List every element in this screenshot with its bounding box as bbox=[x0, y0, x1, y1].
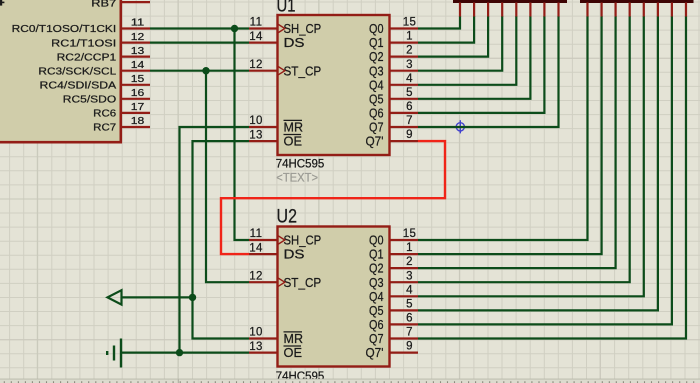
svg-text:Q5: Q5 bbox=[369, 303, 384, 318]
pin RC5/SDO (pin 16) of microcontroller bbox=[122, 98, 150, 100]
svg-text:Q7: Q7 bbox=[369, 120, 384, 135]
svg-text:Q0: Q0 bbox=[369, 233, 384, 248]
svg-text:5: 5 bbox=[406, 87, 413, 99]
bar1 pin stub at x=474 bbox=[473, 3, 475, 17]
pin Q6 (6) of U2 bbox=[390, 323, 419, 325]
svg-text:74HC595: 74HC595 bbox=[276, 158, 325, 170]
wire RC0 to U1 SH_CP bbox=[150, 27, 249, 29]
pin Q2 (2) of U1 bbox=[390, 55, 419, 57]
op: U2 74HC595 body bbox=[278, 227, 390, 367]
arrow head (left pointing) bbox=[108, 290, 122, 304]
svg-text:Q3: Q3 bbox=[369, 63, 384, 78]
wire U1 Q4 to bar1 pin 5 bbox=[418, 16, 516, 85]
wire U1 Q3 to bar1 pin 4 bbox=[418, 16, 502, 71]
svg-text:RC1/T1OSI: RC1/T1OSI bbox=[51, 37, 116, 49]
wire U2 Q3 to bar2 pin 4 bbox=[418, 16, 630, 282]
red wire U1 Q7' to U2 DS bbox=[221, 141, 445, 254]
svg-text:RC6: RC6 bbox=[93, 108, 116, 120]
bar1 pin stub at x=502 bbox=[501, 3, 503, 17]
svg-text:RC0/T1OSO/T1CKI: RC0/T1OSO/T1CKI bbox=[12, 23, 116, 35]
svg-text:ST_CP: ST_CP bbox=[284, 63, 322, 78]
svg-text:15: 15 bbox=[403, 17, 417, 29]
pin Q3 (3) of U2 bbox=[390, 281, 419, 283]
wire U1 Q7 to bar1 pin 8 bbox=[418, 16, 559, 127]
svg-text:Q7: Q7 bbox=[369, 331, 384, 346]
svg-text:OE: OE bbox=[284, 134, 303, 149]
svg-text:Q4: Q4 bbox=[369, 77, 384, 92]
bar1 pin stub at x=460 bbox=[459, 3, 461, 17]
svg-text:1: 1 bbox=[406, 242, 413, 254]
svg-text:7: 7 bbox=[406, 115, 413, 127]
svg-text:U1: U1 bbox=[277, 0, 296, 16]
wire U1 Q6 to bar1 pin 7 bbox=[418, 16, 544, 113]
bar1 pin stub at x=488 bbox=[487, 3, 489, 17]
pin DS (14) of U2 bbox=[249, 253, 278, 255]
pin Q0 (15) of U1 bbox=[390, 27, 419, 29]
svg-text:4: 4 bbox=[406, 284, 413, 296]
pin Q7' (9) of U2 bbox=[390, 352, 419, 354]
svg-text:RC4/SDI/SDA: RC4/SDI/SDA bbox=[40, 80, 117, 92]
wire U1 Q1 to bar1 pin 2 bbox=[418, 16, 474, 43]
top component bar 2 (cut off above) bbox=[580, 0, 694, 3]
junction dot RC0/SH_CP bbox=[231, 25, 238, 32]
wire U2 Q2 to bar2 pin 3 bbox=[418, 16, 616, 268]
svg-text:RC3/SCK/SCL: RC3/SCK/SCL bbox=[38, 65, 116, 77]
bar2 pin stub at x=672 bbox=[671, 3, 673, 17]
svg-text:18: 18 bbox=[131, 116, 145, 127]
pin RB7 of microcontroller, stub bbox=[122, 1, 150, 3]
wire SH_CP net down to U2 SH_CP bbox=[235, 29, 250, 241]
pin MR (10) of U1 bbox=[249, 126, 278, 128]
junction dot RC3/ST_CP bbox=[202, 67, 209, 74]
pin Q4 (4) of U1 bbox=[390, 84, 419, 86]
pin RC6 (pin 17) of microcontroller bbox=[122, 112, 150, 114]
wire U1 Q0 to bar1 pin 1 bbox=[418, 16, 460, 29]
svg-text:5: 5 bbox=[406, 299, 413, 311]
bar1 pin stub at x=516 bbox=[515, 3, 517, 17]
svg-text:6: 6 bbox=[406, 313, 413, 325]
microcontroller chip body (PIC, partially visible) bbox=[0, 0, 121, 142]
bar2 pin stub at x=630 bbox=[629, 3, 631, 17]
pin Q3 (3) of U1 bbox=[390, 70, 419, 72]
wire U2 Q7 to bar2 pin 8 bbox=[418, 16, 686, 339]
svg-text:Q1: Q1 bbox=[369, 247, 384, 262]
pin RC3/SCK/SCL (pin 14) of microcontroller bbox=[122, 70, 150, 72]
svg-text:Q7': Q7' bbox=[366, 134, 384, 149]
junction dot arrow wire / OE net bbox=[189, 294, 196, 301]
bottom window edge strip bbox=[0, 378, 700, 381]
svg-text:MR: MR bbox=[284, 120, 304, 135]
pin Q1 (1) of U1 bbox=[390, 41, 419, 43]
svg-text:1: 1 bbox=[406, 31, 413, 43]
pin RC7 (pin 18) of microcontroller bbox=[122, 126, 150, 128]
pin RC2/CCP1 (pin 13) of microcontroller bbox=[122, 55, 150, 57]
svg-text:11: 11 bbox=[131, 18, 145, 29]
bar1 pin stub at x=530 bbox=[529, 3, 531, 17]
wire U1 Q5 to bar1 pin 6 bbox=[418, 16, 530, 99]
pin RC1/T1OSI (pin 12) of microcontroller bbox=[122, 41, 150, 43]
pin Q5 (5) of U2 bbox=[390, 309, 419, 311]
svg-text:RC7: RC7 bbox=[93, 122, 116, 134]
pin Q6 (6) of U1 bbox=[390, 112, 419, 114]
svg-text:Q4: Q4 bbox=[369, 289, 384, 304]
svg-text:13: 13 bbox=[249, 129, 263, 141]
svg-text:13: 13 bbox=[249, 341, 263, 353]
svg-text:Q0: Q0 bbox=[369, 21, 384, 36]
svg-text:10: 10 bbox=[249, 115, 263, 127]
wire RC1 to U1 DS bbox=[150, 41, 249, 43]
pin Q7 (7) of U2 bbox=[390, 337, 419, 339]
svg-text:Q7': Q7' bbox=[366, 345, 384, 360]
svg-text:U2: U2 bbox=[277, 206, 298, 227]
junction dot ground rail bbox=[176, 349, 183, 356]
svg-text:7: 7 bbox=[406, 327, 413, 339]
svg-text:14: 14 bbox=[249, 242, 263, 254]
pin Q7 (7) of U1 bbox=[390, 126, 419, 128]
svg-text:12: 12 bbox=[249, 59, 263, 71]
stray text fragment top-left corner bbox=[0, 0, 4, 6]
svg-text:RC2/CCP1: RC2/CCP1 bbox=[57, 51, 117, 63]
pin Q5 (5) of U1 bbox=[390, 98, 419, 100]
svg-text:Q5: Q5 bbox=[369, 91, 384, 106]
pin SH_CP (11) of U2 bbox=[249, 239, 278, 241]
top component bar 1 (cut off above) bbox=[453, 0, 567, 3]
wire U2 Q0 to bar2 pin 1 bbox=[418, 16, 588, 240]
wire U2 Q5 to bar2 pin 6 bbox=[418, 16, 658, 310]
wire U2 Q1 to bar2 pin 2 bbox=[418, 16, 602, 254]
bar2 pin stub at x=588 bbox=[586, 3, 588, 17]
svg-text:14: 14 bbox=[249, 31, 263, 43]
pin OE (13) of U1 bbox=[249, 140, 278, 142]
svg-text:ST_CP: ST_CP bbox=[284, 275, 322, 290]
pin OE (13) of U2 bbox=[249, 352, 278, 354]
pin Q1 (1) of U2 bbox=[390, 253, 419, 255]
svg-text:12: 12 bbox=[131, 32, 145, 43]
svg-text:3: 3 bbox=[406, 59, 413, 71]
wire U1 OE down to U2 MR bbox=[193, 141, 250, 338]
wire U1 Q2 to bar1 pin 3 bbox=[418, 16, 488, 57]
input arrow wire bbox=[122, 296, 193, 298]
bar2 pin stub at x=644 bbox=[643, 3, 645, 17]
svg-text:11: 11 bbox=[250, 17, 263, 29]
svg-text:14: 14 bbox=[131, 60, 145, 71]
svg-text:2: 2 bbox=[406, 45, 413, 57]
svg-text:<TEXT>: <TEXT> bbox=[276, 170, 318, 184]
svg-text:Q3: Q3 bbox=[369, 275, 384, 290]
svg-text:MR: MR bbox=[284, 331, 304, 346]
svg-text:DS: DS bbox=[284, 35, 305, 50]
pin MR (10) of U2 bbox=[249, 337, 278, 339]
svg-text:DS: DS bbox=[284, 247, 305, 262]
ground rail to U2 OE bbox=[121, 352, 249, 354]
svg-text:4: 4 bbox=[406, 73, 413, 85]
pin ST_CP (12) of U2 bbox=[249, 281, 278, 283]
pin Q7' (9) of U1 bbox=[390, 140, 419, 142]
bar1 pin stub at x=544 bbox=[543, 3, 545, 17]
svg-text:Q6: Q6 bbox=[369, 106, 384, 121]
wire U1 MR down to ground rail bbox=[180, 127, 250, 353]
svg-text:6: 6 bbox=[406, 101, 413, 113]
svg-text:Q2: Q2 bbox=[369, 49, 384, 64]
svg-text:Q6: Q6 bbox=[369, 317, 384, 332]
svg-text:13: 13 bbox=[131, 46, 145, 57]
svg-text:RC5/SDO: RC5/SDO bbox=[63, 94, 116, 106]
svg-text:SH_CP: SH_CP bbox=[284, 21, 322, 36]
svg-text:OE: OE bbox=[284, 345, 303, 360]
ground symbol bbox=[107, 339, 121, 368]
svg-text:9: 9 bbox=[406, 129, 413, 141]
svg-text:Q2: Q2 bbox=[369, 261, 384, 276]
svg-text:SH_CP: SH_CP bbox=[284, 233, 322, 248]
bar2 pin stub at x=616 bbox=[614, 3, 616, 17]
svg-text:11: 11 bbox=[250, 228, 263, 240]
pin SH_CP (11) of U1 bbox=[249, 27, 278, 29]
svg-text:3: 3 bbox=[406, 270, 413, 282]
wire U2 Q4 to bar2 pin 5 bbox=[418, 16, 644, 296]
svg-text:12: 12 bbox=[249, 270, 263, 282]
pin Q0 (15) of U2 bbox=[390, 239, 419, 241]
svg-text:17: 17 bbox=[131, 102, 145, 113]
svg-text:RB7: RB7 bbox=[91, 0, 116, 10]
wire ST_CP net down to U2 ST_CP bbox=[206, 71, 249, 283]
blue crosshair cursor bbox=[454, 120, 467, 133]
pin RC4/SDI/SDA (pin 15) of microcontroller bbox=[122, 84, 150, 86]
bar1 pin stub at x=558 bbox=[557, 3, 559, 17]
svg-text:9: 9 bbox=[406, 341, 413, 353]
svg-text:16: 16 bbox=[131, 88, 145, 99]
svg-text:2: 2 bbox=[406, 256, 413, 268]
op: U1 74HC595 body bbox=[278, 15, 390, 155]
pin RC0/T1OSO/T1CKI (pin 11) of microcontroller bbox=[122, 27, 150, 29]
wire RC3 to U1 ST_CP bbox=[150, 70, 249, 72]
svg-text:Q1: Q1 bbox=[369, 35, 384, 50]
bar2 pin stub at x=658 bbox=[657, 3, 659, 17]
pin DS (14) of U1 bbox=[249, 41, 278, 43]
pin ST_CP (12) of U1 bbox=[249, 70, 278, 72]
pin Q4 (4) of U2 bbox=[390, 295, 419, 297]
bar2 pin stub at x=686 bbox=[685, 3, 687, 17]
wire U2 Q6 to bar2 pin 7 bbox=[418, 16, 672, 324]
svg-text:15: 15 bbox=[131, 74, 145, 85]
bar2 pin stub at x=602 bbox=[600, 3, 602, 17]
svg-text:10: 10 bbox=[249, 327, 263, 339]
svg-text:15: 15 bbox=[403, 228, 417, 240]
pin Q2 (2) of U2 bbox=[390, 267, 419, 269]
